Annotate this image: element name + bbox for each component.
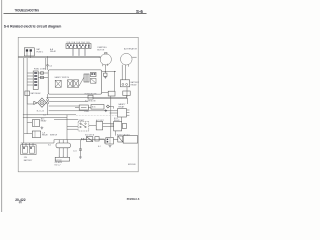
- wire battery relay down: [126, 87, 128, 98]
- link box LB2: [88, 105, 104, 110]
- ground G5: [109, 145, 112, 147]
- diamond node: [106, 105, 113, 109]
- acc relay R2: [27, 117, 47, 126]
- connector CN1 strip: [27, 71, 38, 89]
- ground G3: [41, 126, 44, 129]
- heater relay R3: [24, 131, 49, 138]
- wire SR to R4: [121, 117, 123, 121]
- AC box A2: [95, 137, 99, 141]
- battery 24V pack: [21, 143, 36, 162]
- box BR-B: [123, 136, 137, 144]
- connector bubbles CB1: [43, 94, 48, 116]
- wire R4 down: [115, 131, 117, 136]
- svg-text:RELAY: RELAY: [41, 120, 48, 123]
- fuse lead wires: [73, 49, 85, 56]
- glow plug connector diamond: [34, 98, 47, 113]
- contact K1: [68, 80, 73, 88]
- alternator G1: [121, 47, 138, 80]
- sub box P2: [91, 78, 97, 83]
- hatched connector CN5: [84, 74, 89, 82]
- wire h119: [54, 119, 78, 121]
- wire v67: [66, 115, 68, 140]
- rail wire to harness box B: [47, 56, 49, 70]
- lever wire: [79, 77, 84, 86]
- connector CN2 block: [55, 157, 70, 166]
- wire A2 right: [99, 139, 104, 144]
- bottom bus mid: [54, 139, 105, 141]
- wire vertical J2 down: [114, 71, 116, 91]
- svg-text:D-3: D-3: [49, 65, 52, 67]
- svg-text:E-3 C-7: E-3 C-7: [55, 164, 61, 166]
- junction node J1: [105, 71, 106, 72]
- svg-text:MOTOR: MOTOR: [97, 49, 105, 51]
- svg-text:M-1 C-16: M-1 C-16: [37, 111, 44, 113]
- relay R4: [110, 113, 127, 136]
- svg-text:B 05: B 05: [92, 107, 96, 109]
- wire horizontal right mid: [102, 70, 116, 72]
- ground G4: [79, 157, 82, 159]
- wire h106: [49, 105, 79, 107]
- bottom bus left: [21, 142, 54, 144]
- starting motor M1: [97, 46, 111, 71]
- junction box JB2: [123, 91, 130, 95]
- switch S1: [55, 80, 61, 87]
- svg-text:E-1: E-1: [48, 145, 51, 147]
- wire h126: [67, 126, 78, 128]
- svg-text:FUEL CONT.: FUEL CONT.: [34, 69, 46, 71]
- engine sol box E1: [48, 140, 70, 158]
- connector ticks: [81, 138, 86, 140]
- lamp switch box L1: [25, 91, 42, 104]
- svg-text:S-6 Related electric circuit d: S-6 Related electric circuit diagram: [4, 23, 62, 28]
- svg-text:RELAY: RELAY: [50, 50, 57, 53]
- starting switch SW1 (dashed): [78, 119, 89, 131]
- wire h117: [23, 117, 67, 119]
- box BR-A: [118, 136, 123, 142]
- wire h98: [93, 97, 127, 99]
- rail wire to harness box A: [45, 58, 47, 70]
- svg-text:20-422: 20-422: [15, 197, 26, 202]
- rail wire left A: [23, 58, 25, 143]
- cab harness box: [48, 70, 101, 94]
- page left scan edge: [1, 0, 3, 212]
- wire down to ground G4: [79, 140, 81, 157]
- fuse box FB1: [66, 41, 91, 56]
- svg-text:BAT RELAY: BAT RELAY: [31, 92, 42, 95]
- fusible link FL1: [85, 94, 98, 99]
- bus wire upper: [18, 55, 100, 57]
- bus wire lower: [18, 57, 100, 59]
- svg-text:BATTERY: BATTERY: [24, 159, 33, 162]
- svg-text:A/C UNIT A: A/C UNIT A: [85, 134, 95, 137]
- junction box JB1: [108, 91, 115, 96]
- dotted wire: [76, 114, 118, 116]
- ground G2: [105, 109, 108, 112]
- svg-text:SAFETY SWITCH: SAFETY SWITCH: [55, 76, 70, 79]
- wire TB1 right: [113, 138, 117, 140]
- pin box P1: [91, 72, 97, 76]
- rail wire right: [110, 96, 112, 137]
- rail wire left B: [26, 58, 28, 134]
- contact K2: [74, 80, 79, 88]
- harness wires left-mid: [23, 102, 118, 120]
- AC box A1: [86, 137, 92, 142]
- svg-text:SLOW BLOW: SLOW BLOW: [85, 101, 96, 103]
- svg-text:TROUBLESHOOTING: TROUBLESHOOTING: [15, 9, 40, 13]
- diode D1 to ground: [104, 71, 107, 78]
- svg-text:RELAY: RELAY: [114, 119, 121, 122]
- schematic frame: [18, 37, 138, 172]
- junction node J2: [114, 71, 115, 72]
- bottom bus jog: [53, 140, 55, 143]
- terminal block TB1: [106, 138, 114, 144]
- svg-text:ALTERNATOR: ALTERNATOR: [124, 47, 138, 50]
- wire under harness box: [47, 97, 128, 99]
- safety relay SR1: [118, 103, 130, 117]
- header rule: [4, 13, 147, 15]
- battery fuse box B1: [24, 48, 34, 58]
- link box LB1: [75, 105, 90, 113]
- svg-text:C-01: C-01: [73, 151, 77, 153]
- wire h129: [67, 128, 78, 130]
- svg-text:BKP02030: BKP02030: [128, 164, 136, 166]
- svg-text:PC200LC-6: PC200LC-6: [127, 197, 140, 201]
- svg-text:RELAY: RELAY: [131, 84, 138, 87]
- battery relay BR1: [120, 80, 139, 87]
- svg-text:RELAY: RELAY: [118, 105, 125, 108]
- wire h101: [49, 101, 88, 103]
- wire JB2 down: [127, 95, 128, 104]
- wire h115: [23, 114, 76, 116]
- inline connector CN4: [38, 76, 48, 78]
- wire box link: [102, 91, 109, 93]
- svg-text:RELAY: RELAY: [42, 134, 49, 137]
- wires right of mid: [67, 115, 78, 140]
- inline connector CN3: [38, 72, 48, 74]
- svg-text:SWITCH: SWITCH: [50, 135, 58, 137]
- wire h110: [49, 110, 118, 112]
- node D3: [47, 64, 49, 66]
- svg-text:FUSE 2: FUSE 2: [37, 52, 44, 54]
- svg-text:E-2: E-2: [98, 146, 101, 148]
- AC unit box U1: [89, 119, 114, 130]
- svg-text:(2): (2): [19, 202, 22, 204]
